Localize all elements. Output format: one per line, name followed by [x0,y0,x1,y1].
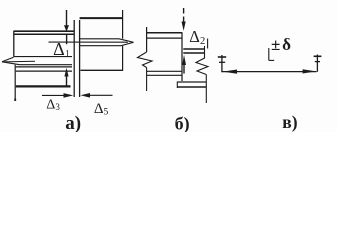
figure b: up arrow shaft [183,65,185,74]
figure b: left beam top flange lines [147,32,183,34]
figure a: right break wedge upper stroke [119,39,134,43]
svg-text:в): в) [282,112,297,132]
figure v: left marker top bar [218,56,226,58]
figure b: left beam bottom flange lines [147,70,182,72]
figure v: right axis marker vertical [316,55,318,72]
svg-text:Δ2: Δ2 [189,27,205,47]
figure b: extension line right of Delta2 [207,39,209,49]
figure a: dimension arrow shaft (top, at x=66.5) [66,10,68,26]
figure a: right break wedge lower stroke [121,42,134,45]
figure a: down arrowhead onto left beam top flange [64,25,69,32]
figure b: right beam top flange lines [183,48,204,50]
figure a: right beam bottom edge [81,69,123,71]
figure v: left marker second bar [219,61,225,63]
figure b: right beam right tear zigzag [196,46,208,75]
figure a: right break band bottom line [80,45,121,47]
figure b: dashed down-arrow shaft [183,8,185,14]
figure a: up arrowhead onto lower flange [64,68,68,77]
figure a: right beam right edge lower [122,46,124,71]
figure v: left axis marker vertical [221,55,223,72]
figure a: up arrow shaft [66,76,68,86]
figure a: dimension line continuation below flange [66,34,68,44]
svg-text:±δ: ±δ [271,35,291,54]
svg-text:Δ3: Δ3 [46,98,60,113]
figure a: left beam horizontal break band top line [14,56,73,58]
figure a: bottom dimension right shaft [88,94,113,96]
figure a: bottom dimension right-pointing arrowhead [64,93,74,98]
figure a: left beam left edge (lower, extends below) [14,65,16,99]
figure a: break wedge lower stroke [2,62,20,65]
figure a: break wedge middle line [2,60,35,63]
figure a: left beam lower flange line 2 [16,70,72,72]
figure b: up arrowhead onto right beam top flange [182,55,186,65]
figure v: left-pointing arrowhead [223,70,237,74]
figure a: left beam top flange (double line) [14,30,74,32]
figure v: right marker top bar [314,55,322,57]
figure b: left beam left edge lower [146,68,148,92]
figure a: column left line [73,20,75,97]
figure b: right beam right edge lower [205,75,207,104]
figure a: bottom dimension left-pointing arrowhead [80,93,90,98]
figure b: right beam bottom flange lines [177,81,206,83]
figure a: left beam bottom edge (thick) [16,85,71,87]
figure b: left beam left edge upper [146,27,148,52]
figure a: right beam right edge upper [122,10,124,39]
figure b: down arrowhead onto left beam top [182,22,186,31]
figure a: break wedge upper stroke to left tip [2,57,14,62]
figure v: right marker second bar [315,61,320,63]
figure a: break band bottom line [20,64,73,66]
figure a: right beam top flange [80,17,123,19]
svg-text:а): а) [65,113,81,132]
figure b: left beam right end edge [181,33,183,81]
svg-text:Δ5: Δ5 [94,101,109,117]
figure a: bottom dimension left shaft [42,94,65,96]
figure a: left beam left edge (upper) [13,31,15,57]
svg-text:б): б) [175,114,190,133]
figure a: left beam lower flange line 1 [16,66,72,68]
figure b: right beam bottom flange left end [176,82,178,89]
figure v: dimension line [223,71,317,73]
figure a: column right line [79,20,81,97]
figure a: right beam break band top line [80,38,119,40]
figure b: left beam left tear zigzag [138,52,153,68]
figure v: right-pointing arrowhead [303,69,317,73]
figure v: leader line of plus-minus delta [268,48,270,60]
figure a: extension line y42 through column [49,41,129,43]
